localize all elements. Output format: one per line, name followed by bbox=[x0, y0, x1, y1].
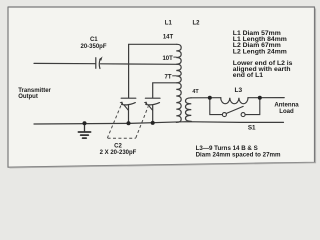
svg-text:14T: 14T bbox=[163, 34, 174, 40]
svg-text:L3: L3 bbox=[235, 87, 243, 94]
junction dot L2/S1 bbox=[208, 96, 212, 100]
wire transmitter hot to C1 bbox=[34, 62, 96, 64]
capacitor C2a bbox=[121, 98, 136, 123]
svg-text:C1: C1 bbox=[90, 37, 98, 43]
frame shadow right/bottom bbox=[10, 9, 316, 168]
svg-text:Transmitter: Transmitter bbox=[18, 88, 51, 94]
switch S1 bbox=[210, 98, 260, 117]
svg-text:Load: Load bbox=[279, 108, 294, 115]
svg-text:2 X 20-230pF: 2 X 20-230pF bbox=[100, 150, 137, 156]
wire 7T tap line bbox=[153, 83, 177, 98]
svg-text:Diam 24mm spaced to 27mm: Diam 24mm spaced to 27mm bbox=[196, 151, 281, 158]
svg-text:L2 Length 24mm: L2 Length 24mm bbox=[233, 48, 287, 55]
schematic panel frame bbox=[8, 7, 315, 167]
svg-text:C2: C2 bbox=[114, 143, 122, 149]
svg-text:4T: 4T bbox=[192, 89, 199, 95]
page background bbox=[0, 0, 320, 172]
ground bbox=[78, 124, 90, 139]
junction dot S1/antenna bbox=[258, 96, 262, 100]
junction dot ground bbox=[83, 121, 87, 125]
tick 10T bbox=[173, 56, 176, 58]
wire 14T tap line bbox=[129, 44, 177, 97]
wire L2 top to antenna bbox=[191, 97, 221, 99]
svg-text:L1: L1 bbox=[165, 21, 173, 27]
junction dot C2b bbox=[151, 121, 155, 125]
gang link dashed C2 bbox=[107, 106, 148, 139]
svg-text:7T: 7T bbox=[164, 75, 171, 81]
svg-text:S1: S1 bbox=[248, 125, 256, 132]
junction dot C2a bbox=[127, 121, 131, 125]
capacitor C1 bbox=[96, 58, 101, 69]
svg-text:end of L1: end of L1 bbox=[233, 72, 263, 79]
wire bottom ground bus bbox=[34, 122, 284, 124]
inductor L1 bbox=[176, 44, 181, 122]
wire L3 to antenna terminal bbox=[248, 97, 284, 99]
svg-text:L2: L2 bbox=[192, 21, 200, 27]
tick 7T bbox=[172, 75, 176, 77]
svg-text:20-350pF: 20-350pF bbox=[80, 44, 106, 50]
wire C1 to 10T tap bbox=[100, 63, 177, 66]
svg-text:Output: Output bbox=[18, 94, 38, 100]
capacitor C2b bbox=[145, 98, 160, 122]
inductor L3 bbox=[221, 98, 248, 104]
inductor L2 bbox=[186, 98, 192, 122]
svg-text:10T: 10T bbox=[162, 56, 173, 62]
